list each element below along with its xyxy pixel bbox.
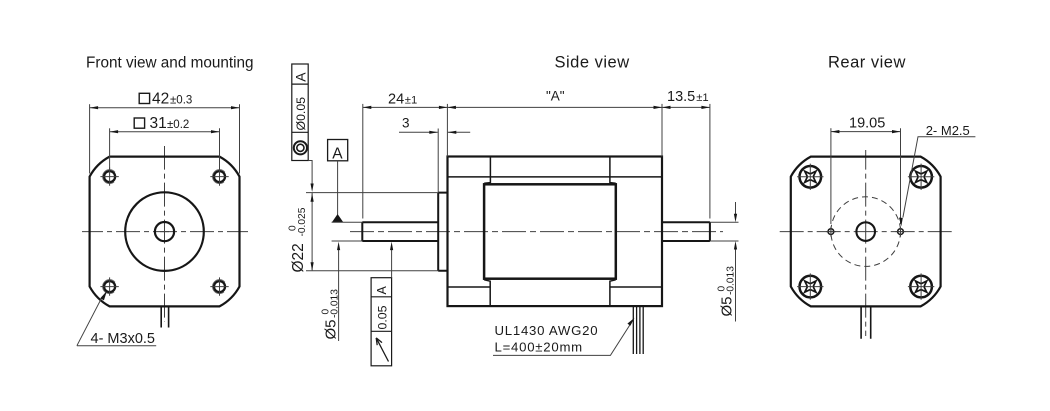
svg-text:-0.025: -0.025 bbox=[297, 207, 308, 236]
pilot boss bbox=[438, 193, 447, 271]
label Ø22 0/-0.025 rotated bbox=[288, 207, 308, 272]
front shaft bbox=[362, 222, 438, 241]
dimension square-42 ±0.3 bbox=[90, 104, 240, 173]
dimension 24±1 bbox=[363, 104, 448, 219]
front lead wires bbox=[161, 306, 168, 327]
rear screw top-left bbox=[797, 164, 823, 190]
front cap separator top bbox=[484, 157, 490, 184]
side lead wires bbox=[633, 306, 643, 354]
dimension Ø22 bbox=[306, 193, 438, 271]
front pilot circle Ø22 bbox=[125, 192, 204, 271]
feature control frame concentricity Ø0.05 A bbox=[292, 64, 308, 161]
svg-text:0.05: 0.05 bbox=[375, 305, 389, 329]
datum A leader and triangle bbox=[337, 161, 339, 215]
svg-text:Ø0.05: Ø0.05 bbox=[294, 97, 308, 131]
dimension 19.05 bbox=[831, 128, 901, 224]
shaft extension lines (left) bbox=[332, 222, 363, 241]
mounting hole top-right bbox=[210, 167, 228, 185]
rear bolt circle dashed bbox=[831, 197, 901, 267]
dimension square-31 ±0.2 bbox=[110, 128, 220, 169]
svg-text:UL1430 AWG20: UL1430 AWG20 bbox=[495, 323, 599, 338]
mounting hole top-left bbox=[100, 167, 118, 185]
rear screw bottom-right bbox=[908, 273, 934, 299]
dimension Ø5 right bbox=[735, 202, 737, 322]
label Ø5 0/-0.013 (left) leader bbox=[338, 248, 340, 341]
svg-text:3: 3 bbox=[402, 115, 410, 130]
runout symbol arrow bbox=[376, 338, 388, 362]
rear shaft bbox=[662, 222, 710, 241]
svg-text:42: 42 bbox=[152, 91, 169, 108]
rear cap separator top bbox=[610, 157, 616, 184]
front motor body octagon outline bbox=[90, 157, 240, 307]
svg-text:13.5: 13.5 bbox=[667, 89, 695, 105]
svg-text:Front view and mounting: Front view and mounting bbox=[86, 55, 254, 72]
svg-text:Rear view: Rear view bbox=[828, 54, 906, 72]
svg-text:±0.2: ±0.2 bbox=[167, 119, 189, 131]
svg-text:-0.013: -0.013 bbox=[725, 266, 736, 295]
front view centerline vertical bbox=[164, 146, 166, 322]
svg-text:-0.013: -0.013 bbox=[329, 289, 340, 318]
svg-text:Ø5: Ø5 bbox=[323, 319, 340, 339]
dimension 3 (boss) bbox=[399, 129, 470, 193]
rear motor body octagon outline bbox=[791, 157, 941, 307]
svg-text:"A": "A" bbox=[546, 89, 565, 104]
front cap separator bottom bbox=[484, 280, 490, 306]
rear view centerline horizontal bbox=[778, 231, 952, 233]
mounting hole bottom-right bbox=[210, 277, 228, 295]
rear cap separator bottom bbox=[610, 280, 616, 306]
feature control frame runout 0.05 A bbox=[371, 278, 392, 366]
leader 4- M3x0.5 bbox=[77, 296, 103, 345]
front center mark cross bbox=[160, 227, 169, 236]
side view axis centerline bbox=[350, 231, 723, 233]
leader from concentricity frame bbox=[308, 161, 312, 185]
rear lead wires bbox=[861, 306, 871, 338]
svg-text:2- M2.5: 2- M2.5 bbox=[926, 123, 970, 138]
rear M2.5 hole left bbox=[826, 227, 836, 237]
motor body outer rectangle bbox=[448, 157, 663, 307]
front shaft circle Ø5 bbox=[155, 222, 174, 241]
svg-text:A: A bbox=[332, 145, 343, 162]
svg-text:Side view: Side view bbox=[555, 53, 630, 71]
cap band top line bbox=[448, 176, 663, 178]
svg-text:31: 31 bbox=[150, 115, 167, 132]
svg-text:±1: ±1 bbox=[405, 95, 417, 107]
svg-text:±1: ±1 bbox=[696, 92, 708, 104]
svg-text:A: A bbox=[375, 286, 389, 295]
svg-text:19.05: 19.05 bbox=[849, 115, 885, 131]
svg-text:±0.3: ±0.3 bbox=[170, 95, 192, 107]
stator stack rectangle bbox=[484, 184, 616, 278]
rear center hole bbox=[856, 222, 875, 241]
svg-text:A: A bbox=[293, 72, 309, 82]
rear M2.5 hole right bbox=[896, 227, 906, 237]
svg-text:Ø22: Ø22 bbox=[290, 243, 307, 272]
rear screw bottom-left bbox=[797, 273, 823, 299]
svg-text:24: 24 bbox=[388, 92, 404, 108]
shaft extension lines (right) bbox=[710, 222, 739, 241]
leader from runout frame to shaft bbox=[391, 248, 393, 278]
svg-text:Ø5: Ø5 bbox=[719, 296, 736, 316]
svg-text:L=400±20mm: L=400±20mm bbox=[495, 340, 583, 355]
front view centerline horizontal bbox=[82, 231, 248, 233]
rear screw top-right bbox=[908, 164, 934, 190]
cap band bottom line right segment bbox=[610, 286, 662, 288]
rear view centerline vertical bbox=[865, 150, 867, 336]
svg-text:4- M3x0.5: 4- M3x0.5 bbox=[91, 331, 155, 347]
cap band bottom line left segment bbox=[448, 286, 491, 288]
datum A box (top) bbox=[328, 140, 348, 161]
label Ø5 0/-0.013 (right) rotated bbox=[717, 266, 737, 317]
dimension 13.5±1 bbox=[662, 106, 710, 108]
dimension "A" bbox=[447, 106, 662, 108]
mounting hole bottom-left bbox=[100, 277, 118, 295]
